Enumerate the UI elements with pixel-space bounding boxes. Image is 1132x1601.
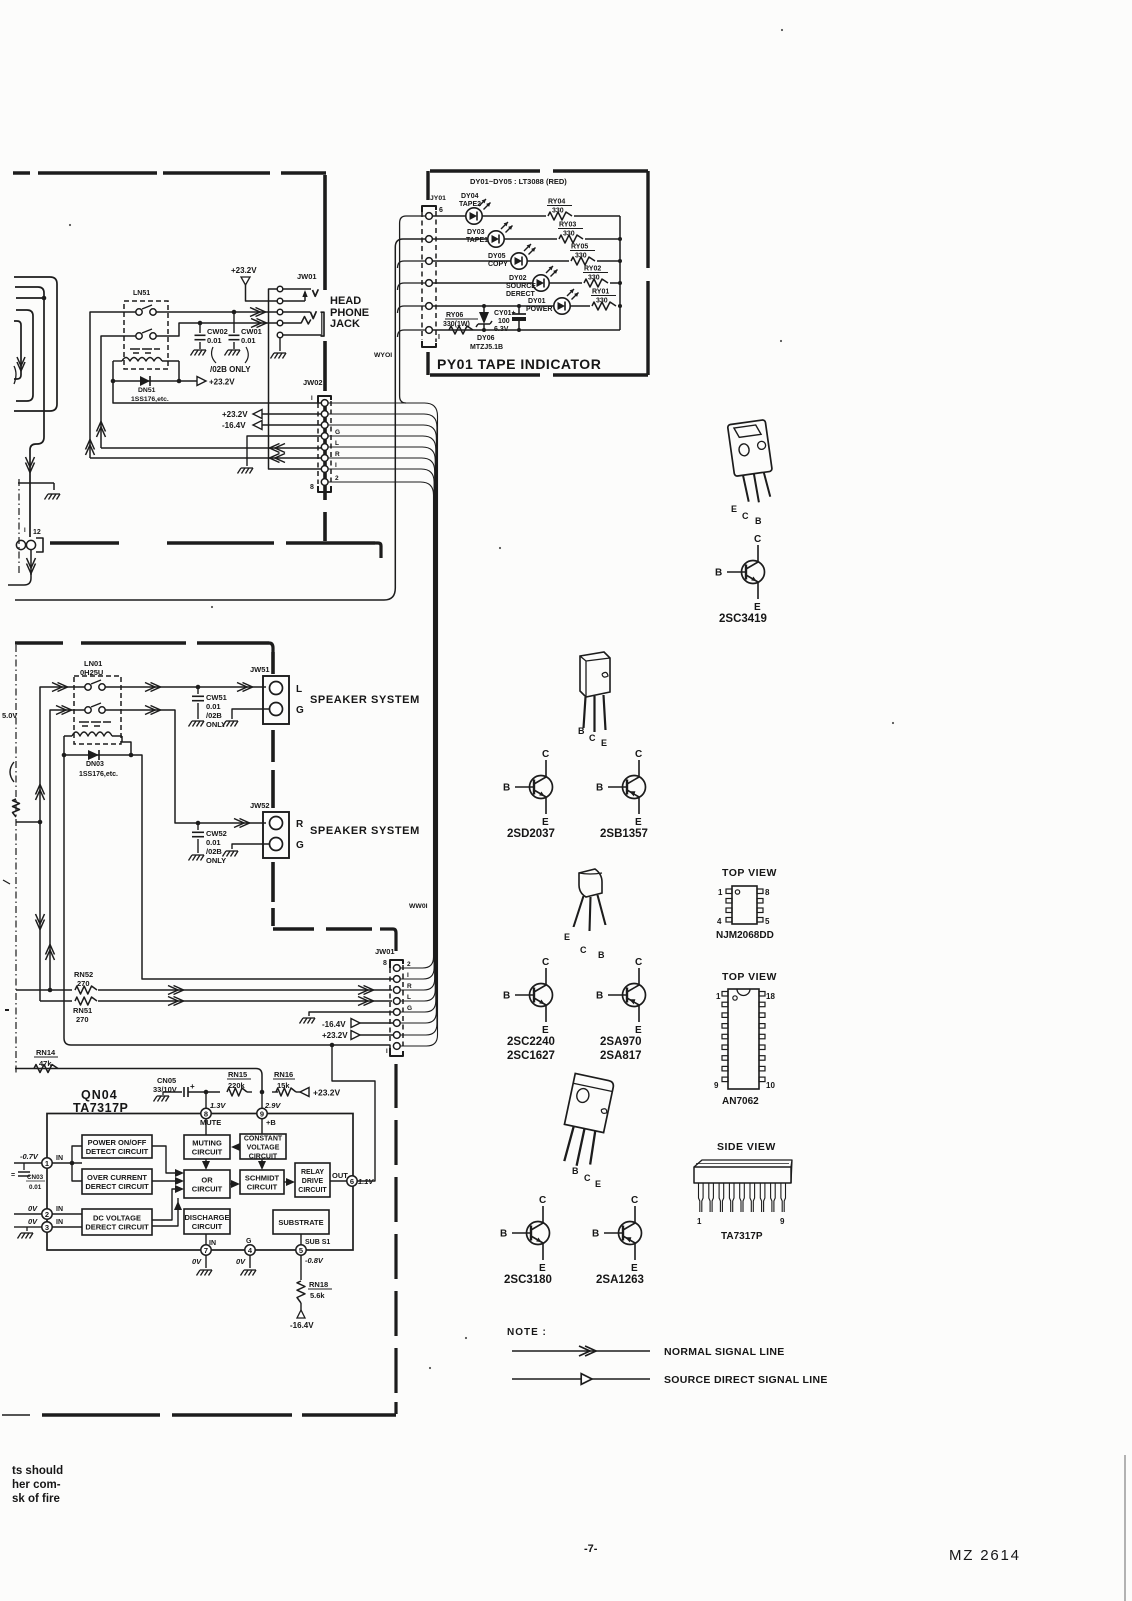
svg-text:RY03: RY03 [559, 222, 576, 229]
svg-text:C: C [580, 945, 587, 955]
svg-text:2SC3419: 2SC3419 [719, 613, 767, 625]
svg-text:B: B [578, 726, 585, 736]
svg-text:COPY: COPY [488, 261, 508, 268]
svg-text:her com-: her com- [12, 1479, 61, 1491]
svg-text:1.3V: 1.3V [210, 1101, 226, 1110]
svg-text:TOP VIEW: TOP VIEW [722, 971, 777, 983]
svg-text:2SC3180: 2SC3180 [504, 1274, 552, 1286]
svg-text:CIRCUIT: CIRCUIT [247, 1182, 278, 1191]
svg-text:0.01: 0.01 [206, 702, 221, 711]
svg-text:MUTING: MUTING [192, 1138, 222, 1147]
svg-text:+23.2V: +23.2V [222, 410, 248, 419]
svg-text:DC VOLTAGE: DC VOLTAGE [93, 1213, 141, 1222]
svg-text:RY01: RY01 [592, 289, 609, 296]
svg-text:9: 9 [780, 1217, 785, 1226]
svg-text:DRIVE: DRIVE [302, 1178, 324, 1185]
svg-text:E: E [754, 602, 761, 613]
svg-text:TAPE2: TAPE2 [459, 201, 481, 208]
svg-text:+23.2V: +23.2V [231, 266, 257, 275]
svg-text:CW51: CW51 [206, 693, 227, 702]
svg-text:L: L [296, 684, 302, 695]
svg-text:330: 330 [588, 275, 600, 282]
svg-text:PY01 TAPE INDICATOR: PY01 TAPE INDICATOR [437, 356, 601, 372]
svg-text:E: E [635, 817, 642, 828]
svg-text:TA7317P: TA7317P [721, 1231, 763, 1242]
svg-text:6: 6 [439, 207, 443, 214]
svg-text:JY01: JY01 [430, 195, 446, 202]
svg-text:4: 4 [717, 917, 722, 926]
svg-text:RY06: RY06 [446, 312, 463, 319]
svg-text:DERECT CIRCUIT: DERECT CIRCUIT [85, 1222, 149, 1231]
svg-text:E: E [539, 1263, 546, 1274]
svg-text:2SA970: 2SA970 [600, 1036, 642, 1048]
svg-text:CW02: CW02 [207, 327, 228, 336]
svg-text:2SB1357: 2SB1357 [600, 828, 648, 840]
svg-text:POWER: POWER [526, 306, 552, 313]
svg-text:POWER ON/OFF: POWER ON/OFF [88, 1138, 147, 1147]
svg-text:100: 100 [498, 318, 510, 325]
svg-text:5: 5 [299, 1246, 303, 1255]
svg-text:1: 1 [45, 1159, 49, 1168]
svg-text:CN03: CN03 [27, 1174, 44, 1181]
svg-text:270: 270 [77, 979, 90, 988]
svg-text:RN15: RN15 [228, 1070, 247, 1079]
svg-text:8: 8 [383, 960, 387, 967]
svg-text:2SC2240: 2SC2240 [507, 1036, 555, 1048]
svg-text:0.01: 0.01 [207, 336, 222, 345]
svg-text:SPEAKER SYSTEM: SPEAKER SYSTEM [310, 825, 420, 837]
svg-text:-16.4V: -16.4V [290, 1321, 314, 1330]
svg-text:10: 10 [766, 1081, 775, 1090]
svg-text:RN14: RN14 [36, 1048, 56, 1057]
svg-text:SCHMIDT: SCHMIDT [245, 1173, 280, 1182]
svg-text:DY04: DY04 [461, 193, 479, 200]
svg-text:9: 9 [260, 1109, 264, 1118]
svg-text:CIRCUIT: CIRCUIT [192, 1222, 223, 1231]
svg-text:B: B [503, 783, 510, 794]
svg-text:+B: +B [266, 1118, 276, 1127]
svg-text:I: I [407, 972, 409, 979]
svg-text:DY01~DY05 : LT3088 (RED): DY01~DY05 : LT3088 (RED) [470, 177, 567, 186]
svg-text:2: 2 [45, 1210, 49, 1219]
svg-text:ONLY: ONLY [206, 856, 226, 865]
svg-text:C: C [635, 749, 642, 760]
svg-text:8: 8 [765, 888, 770, 897]
svg-text:E: E [595, 1179, 601, 1189]
svg-text:CIRCUIT: CIRCUIT [192, 1184, 223, 1193]
svg-text:JW52: JW52 [250, 801, 270, 810]
svg-text:DISCHARGE: DISCHARGE [184, 1213, 229, 1222]
svg-text:+23.2V: +23.2V [322, 1031, 348, 1040]
svg-text:0.01: 0.01 [29, 1184, 42, 1191]
svg-text:IN: IN [56, 1219, 63, 1226]
svg-text:DY02: DY02 [509, 275, 527, 282]
svg-text:SUB S1: SUB S1 [305, 1239, 330, 1246]
svg-text:OUT: OUT [332, 1171, 348, 1180]
svg-text:2.9V: 2.9V [264, 1101, 281, 1110]
svg-text:0V: 0V [28, 1204, 38, 1213]
svg-text:330: 330 [596, 298, 608, 305]
svg-text:5.6k: 5.6k [310, 1291, 325, 1300]
svg-text:9: 9 [714, 1081, 719, 1090]
svg-text:MTZJ5.1B: MTZJ5.1B [470, 344, 503, 351]
svg-text:G: G [296, 705, 304, 716]
svg-text:3: 3 [45, 1223, 49, 1232]
svg-text:CW52: CW52 [206, 829, 227, 838]
svg-text:WYOI: WYOI [374, 352, 392, 359]
svg-text:CONSTANT: CONSTANT [244, 1135, 283, 1142]
svg-text:2SC1627: 2SC1627 [507, 1050, 555, 1062]
svg-text:RELAY: RELAY [301, 1169, 324, 1176]
svg-text:NORMAL SIGNAL LINE: NORMAL SIGNAL LINE [664, 1346, 785, 1358]
svg-text:JACK: JACK [330, 318, 360, 330]
svg-text:B: B [598, 950, 605, 960]
svg-text:220k: 220k [228, 1081, 246, 1090]
svg-text:0V: 0V [236, 1257, 246, 1266]
svg-text:G: G [335, 429, 340, 436]
svg-text:RY02: RY02 [584, 266, 601, 273]
svg-text:0.01: 0.01 [206, 838, 221, 847]
svg-text:IN: IN [56, 1155, 63, 1162]
svg-text:RN16: RN16 [274, 1070, 293, 1079]
svg-text:C: C [589, 733, 596, 743]
svg-text:NOTE :: NOTE : [507, 1327, 547, 1338]
svg-text:/02B ONLY: /02B ONLY [210, 365, 251, 374]
svg-text:MZ 2614: MZ 2614 [949, 1547, 1021, 1564]
svg-text:C: C [754, 534, 761, 545]
svg-text:G: G [407, 1005, 412, 1012]
svg-text:C: C [635, 957, 642, 968]
svg-text:2SA1263: 2SA1263 [596, 1274, 644, 1286]
svg-text:B: B [500, 1229, 507, 1240]
svg-text:C: C [631, 1195, 638, 1206]
svg-text:LN51: LN51 [133, 290, 150, 297]
svg-text:6: 6 [350, 1177, 354, 1186]
svg-text:2: 2 [407, 961, 411, 968]
svg-text:1: 1 [716, 992, 721, 1001]
svg-text:R: R [407, 983, 412, 990]
svg-text:JW01: JW01 [297, 272, 317, 281]
svg-text:MUTE: MUTE [200, 1118, 221, 1127]
svg-text:+23.2V: +23.2V [209, 378, 235, 387]
svg-text:C: C [584, 1173, 591, 1183]
svg-text:IN: IN [209, 1240, 216, 1247]
svg-text:+: + [190, 1082, 195, 1091]
svg-text:CIRCUIT: CIRCUIT [298, 1187, 327, 1194]
svg-text:2: 2 [335, 475, 339, 482]
svg-text:B: B [503, 991, 510, 1002]
svg-text:AN7062: AN7062 [722, 1096, 759, 1107]
svg-text:8: 8 [310, 484, 314, 491]
svg-text:RY04: RY04 [548, 199, 565, 206]
svg-text:HEAD: HEAD [330, 295, 361, 307]
svg-text:-0.8V: -0.8V [305, 1256, 324, 1265]
svg-text:VOLTAGE: VOLTAGE [247, 1144, 280, 1151]
svg-text:0V: 0V [28, 1217, 38, 1226]
svg-text:-0.7V: -0.7V [20, 1152, 39, 1161]
svg-text:DETECT CIRCUIT: DETECT CIRCUIT [86, 1147, 149, 1156]
svg-text:WW0I: WW0I [409, 903, 428, 910]
svg-text:DN51: DN51 [138, 387, 156, 394]
svg-text:6.3V: 6.3V [494, 326, 509, 333]
svg-text:1: 1 [718, 888, 723, 897]
svg-text:G: G [296, 840, 304, 851]
svg-text:SIDE VIEW: SIDE VIEW [717, 1141, 776, 1153]
svg-text:CY01+: CY01+ [494, 310, 516, 317]
svg-text:0V: 0V [192, 1257, 202, 1266]
svg-text:JW02: JW02 [303, 378, 323, 387]
svg-text:E: E [631, 1263, 638, 1274]
svg-text:-16.4V: -16.4V [322, 1020, 346, 1029]
svg-text:sk of fire: sk of fire [12, 1493, 60, 1505]
svg-text:L: L [407, 994, 411, 1001]
svg-text:RN52: RN52 [74, 970, 93, 979]
svg-text:JW01: JW01 [375, 947, 395, 956]
svg-text:L: L [335, 440, 339, 447]
svg-text:OR: OR [201, 1175, 213, 1184]
svg-text:E: E [564, 932, 570, 942]
svg-text:IN: IN [56, 1206, 63, 1213]
svg-text:330(1W): 330(1W) [443, 321, 470, 328]
svg-text:SPEAKER SYSTEM: SPEAKER SYSTEM [310, 694, 420, 706]
svg-text:E: E [635, 1025, 642, 1036]
svg-text:R: R [296, 819, 304, 830]
svg-text:E: E [731, 504, 737, 514]
svg-text:I: I [335, 462, 337, 469]
svg-text:DY06: DY06 [477, 335, 495, 342]
svg-text:RY05: RY05 [571, 244, 588, 251]
svg-text:0.01: 0.01 [241, 336, 256, 345]
svg-text:DERECT: DERECT [506, 291, 536, 298]
svg-text:2SD2037: 2SD2037 [507, 828, 555, 840]
svg-text:C: C [542, 957, 549, 968]
svg-text:E: E [542, 1025, 549, 1036]
svg-text:1: 1 [697, 1217, 702, 1226]
svg-text:E: E [601, 738, 607, 748]
svg-text:1SS176,etc.: 1SS176,etc. [79, 771, 118, 778]
svg-text:RN51: RN51 [73, 1006, 92, 1015]
svg-text:DN03: DN03 [86, 761, 104, 768]
svg-text:CN05: CN05 [157, 1076, 176, 1085]
svg-text:OVER CURRENT: OVER CURRENT [87, 1173, 147, 1182]
svg-text:B: B [596, 991, 603, 1002]
svg-text:CIRCUIT: CIRCUIT [249, 1153, 278, 1160]
svg-text:B: B [755, 516, 762, 526]
svg-text:ts should: ts should [12, 1465, 63, 1477]
svg-text:SOURCE DIRECT SIGNAL LINE: SOURCE DIRECT SIGNAL LINE [664, 1374, 828, 1386]
svg-text:C: C [742, 511, 749, 521]
svg-text:DY03: DY03 [467, 229, 485, 236]
svg-text:SUBSTRATE: SUBSTRATE [278, 1218, 323, 1227]
svg-text:DY01: DY01 [528, 298, 546, 305]
svg-text:TAPE1: TAPE1 [466, 237, 488, 244]
svg-text:JW51: JW51 [250, 665, 270, 674]
svg-text:-7-: -7- [584, 1543, 598, 1555]
svg-text:330: 330 [575, 253, 587, 260]
svg-text:7: 7 [204, 1246, 208, 1255]
svg-text:DERECT CIRCUIT: DERECT CIRCUIT [85, 1182, 149, 1191]
svg-text:12: 12 [33, 529, 41, 536]
svg-text:TOP VIEW: TOP VIEW [722, 867, 777, 879]
svg-text:270: 270 [76, 1015, 89, 1024]
svg-text:R: R [335, 451, 340, 458]
svg-text:SOURCE: SOURCE [506, 283, 536, 290]
svg-text:=: = [11, 1172, 15, 1179]
svg-text:5.0V: 5.0V [2, 711, 17, 720]
svg-text:-16.4V: -16.4V [222, 421, 246, 430]
svg-text:C: C [539, 1195, 546, 1206]
svg-text:B: B [592, 1229, 599, 1240]
svg-text:15k: 15k [277, 1081, 290, 1090]
svg-text:NJM2068DD: NJM2068DD [716, 930, 774, 941]
svg-text:B: B [572, 1166, 579, 1176]
svg-text:CW01: CW01 [241, 327, 262, 336]
svg-text:DY05: DY05 [488, 253, 506, 260]
svg-text:1SS176,etc.: 1SS176,etc. [131, 396, 169, 403]
svg-text:/02B: /02B [206, 847, 222, 856]
svg-text:C: C [542, 749, 549, 760]
svg-text:18: 18 [766, 992, 775, 1001]
svg-text:QN04: QN04 [81, 1088, 118, 1102]
svg-text:I: I [24, 528, 26, 534]
svg-text:CIRCUIT: CIRCUIT [192, 1147, 223, 1156]
svg-text:330: 330 [563, 231, 575, 238]
svg-text:330: 330 [552, 208, 564, 215]
svg-text:LN01: LN01 [84, 659, 102, 668]
svg-text:+23.2V: +23.2V [313, 1088, 341, 1098]
svg-text:G: G [246, 1238, 252, 1245]
svg-text:B: B [596, 783, 603, 794]
svg-text:I: I [438, 334, 440, 341]
svg-text:B: B [715, 568, 722, 579]
svg-text:E: E [542, 817, 549, 828]
svg-text:/02B: /02B [206, 711, 222, 720]
svg-text:8: 8 [204, 1109, 208, 1118]
svg-text:5: 5 [765, 917, 770, 926]
svg-text:RN18: RN18 [309, 1280, 328, 1289]
svg-text:I: I [386, 1049, 388, 1055]
svg-text:2SA817: 2SA817 [600, 1050, 642, 1062]
svg-text:I: I [311, 396, 313, 402]
